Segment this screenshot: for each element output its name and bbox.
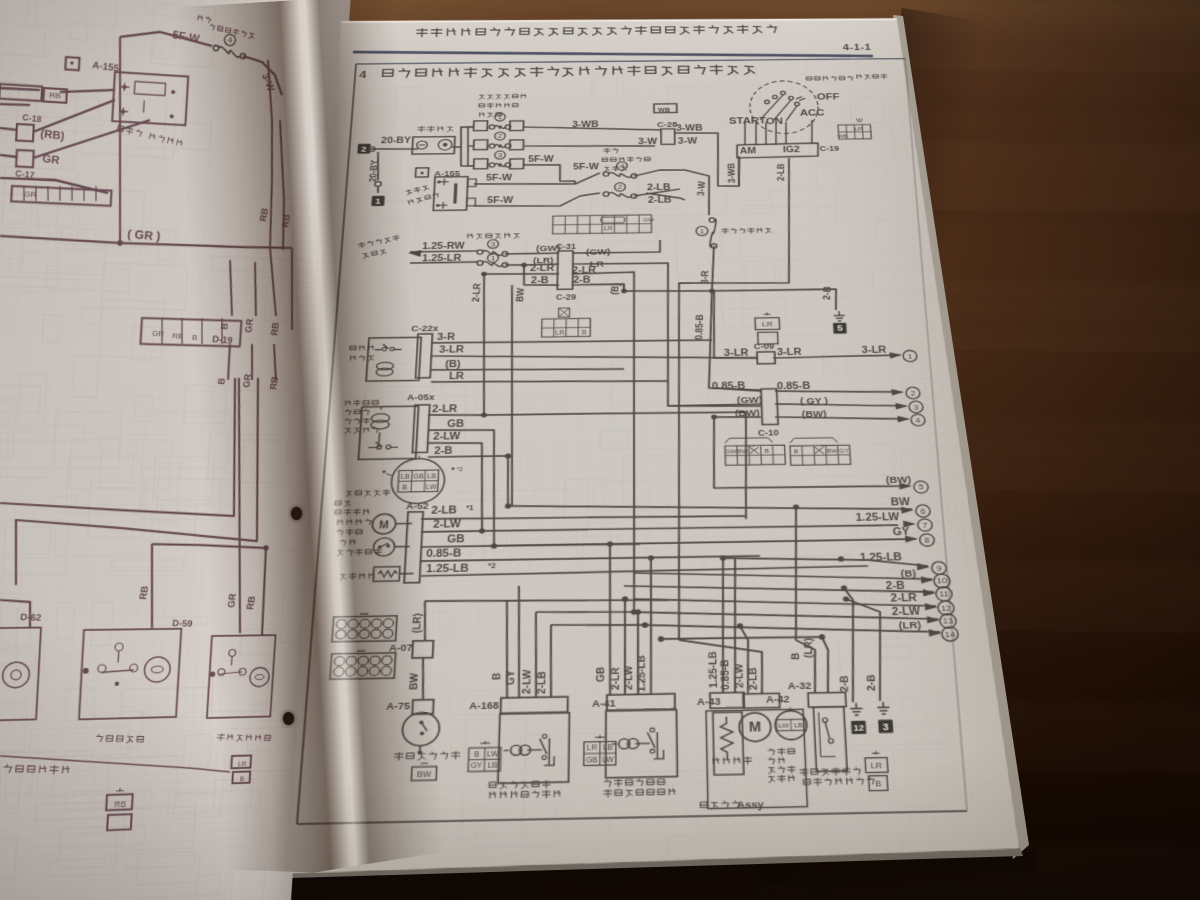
section title manual heater aircon circuit [382,65,754,79]
wire GR down [109,37,132,243]
label C-19 [820,144,840,152]
radiator fan relay label [343,400,380,433]
book gutter shadow band [174,0,446,896]
wire 5FW to subfuse [575,173,600,184]
wire BW down [712,414,910,489]
wire 1.25-LB arrow9 [723,555,928,570]
wire 3-W L [241,56,285,95]
black box 2 [357,144,370,154]
wire LR into A32 [822,637,830,693]
condenser fan assy box [706,709,807,808]
wire 2-B from C29 [572,284,624,292]
label 3-WB vertical [725,163,737,183]
wire LR to C-31 [505,264,559,265]
wire bracket outer [0,373,243,516]
fusible link 3 [489,151,511,168]
relay connector A-52 [404,512,423,583]
wire 2-LB out [634,189,685,201]
wire 0.85-B vertical [707,290,761,390]
fusible link 2 [489,132,511,149]
wire 1.25-LB out [421,566,868,576]
label ACC [800,109,825,119]
pressure switch A-32 [808,692,850,771]
label (LR) 14 [898,619,921,631]
water temp switch S1 [373,537,410,556]
wire 2-B ground3 [846,598,886,701]
noise filter N1 [433,176,476,210]
wire 3-WB row1 [523,125,661,131]
fuse 3 ded [477,239,508,256]
label (BW) c10a [735,407,760,418]
label GY v [503,670,517,685]
wire GB out [421,541,640,550]
wire LR to A-07 [425,597,668,604]
wire 2-LW relay [423,442,485,531]
connector C-10 [756,389,779,438]
wire 2-LB out [421,514,746,521]
label 2-B g12 [836,675,851,692]
motor M1 [372,514,413,535]
label 2-B relay [434,445,454,456]
wire bracket inner [13,373,268,585]
fusible link 4L [213,33,247,58]
wire 3-W row2 [523,144,655,147]
label benza [95,733,143,744]
label 2-LR relay [432,403,458,414]
junction 14 [642,621,743,631]
wire 3-LR left [712,290,757,358]
left page paper sheet [0,0,351,900]
junction dot LR [521,263,527,268]
resistor label [713,757,751,765]
wires below D19 [228,343,278,381]
general fuse label [722,228,771,234]
wire 2-LR arrow12 [634,594,936,611]
label (GW) a [536,243,561,253]
connector C-22x [411,324,439,333]
connector grid C-30 [542,308,591,337]
wire three to D19 [227,246,281,317]
label 0.85-B v3 [718,659,732,690]
wire noise top 5F-W [474,183,575,185]
diagram frame border [297,58,967,824]
connector circle LWLB [775,707,808,740]
relay A-42 bar [743,693,780,708]
label (B) 10 [900,568,916,580]
wire noise bottom 5F-W [474,193,600,207]
wire BW vertical [505,285,518,506]
ignition wires down [744,120,813,145]
label 5F-W d [573,162,599,171]
label B v3 [788,652,802,660]
label 3-LR 1 [724,348,749,358]
battery label [418,126,453,132]
label BW vertical [513,287,526,302]
connector A-42 [766,694,791,705]
label 20-BY vertical [367,159,380,182]
radiator fan assy label [335,490,390,516]
connector A-43 [697,696,722,707]
label 0.85-B b [777,380,812,391]
label (BW) 5 [885,474,911,485]
wire 1.25-LB into A41 [648,555,655,695]
wire 2-B relay [425,456,509,508]
junction 2B [505,453,511,458]
wire BW down A-75 [421,657,425,699]
terminal 2 [891,387,920,399]
junction 2-LR vert [476,272,490,415]
condenser fan motor relay LO label 2 [604,778,675,797]
label 1.25-LB 9 [859,551,902,563]
wire 2-LB into A42 [679,639,763,695]
connector C-28 [657,121,678,145]
connector A-168 [469,700,500,711]
connector D-59 [172,619,194,630]
turn fusible link label [479,94,526,117]
label RB bottom [138,585,151,600]
wire B into A168 [504,600,510,698]
tag A-155 L [65,57,120,74]
wire LR out [431,379,668,385]
wire B into A32 [790,504,817,693]
label 2-LB b [648,195,672,205]
label 0.85-B s [426,547,462,559]
sub fusible link label L [197,15,256,40]
page number 4-1-1 [843,43,872,53]
wire column to rows [466,127,475,166]
pressure switch label [800,767,874,786]
label 3-LR 2 [777,347,803,357]
header title bar [416,25,776,37]
label GR bottom [226,593,258,611]
left page paper [0,0,372,900]
connector A-07 [389,641,434,659]
connector grid D2 [330,650,396,679]
terminal 10 [921,574,951,588]
wire lamp feed [146,544,268,638]
label B v [489,673,503,681]
label 1.25-LB s [426,562,497,574]
wire B arrow10 [634,568,932,584]
label 3-WB [572,120,599,129]
connector C-19 grid [837,119,872,140]
wire 3-LR right [773,355,900,358]
label 1.25-RW [422,241,465,251]
label START [729,116,767,126]
relay A-41 bar [607,694,675,711]
ground 3 [877,702,890,714]
wire RB mid [0,93,115,136]
wire LR right junction [570,262,761,409]
label 2-LW v3 [732,662,746,688]
label 2-LW 13 [891,605,921,617]
label LR right [590,259,604,269]
connector C-09 [754,342,775,364]
wire BW arrow6 [508,500,912,516]
connector small bottom [230,755,251,783]
label (LR) v3 [800,637,815,658]
section number 4 [359,70,368,81]
junction BW6 [505,503,511,508]
black box 1 [371,196,385,206]
wire IG2 down 2-LB [672,158,811,640]
navy header rule [352,46,873,61]
labels below D19 [216,372,281,390]
connector D-62 [20,612,43,623]
label 1.25-LB v3 [706,651,720,688]
connector table B LW GY LB [468,741,501,772]
label 2-LW relay [433,431,461,442]
ground 12 [850,703,863,715]
resistor A-43 [713,712,744,775]
wire GW right [572,240,660,253]
wire GB into A41 [606,541,613,695]
sub fusible link label [602,148,650,172]
connector C-17 [15,150,36,180]
fusible link pads row3 [474,158,524,169]
label GY 8 [892,526,909,537]
wire 1.25-LR [410,262,478,263]
label (B) vertical [607,282,621,295]
label 5F-W L [171,28,201,45]
label 5F-W c [487,195,514,205]
wire 2-B ground12 [844,588,859,702]
terminal 6 [901,505,931,518]
wire 3-R down [711,246,715,291]
connector grid D1 [332,613,397,641]
label GB s [447,534,466,545]
connector WB tag [654,104,677,114]
relay A-168 bar [501,697,568,714]
wire GW to C-31 [505,252,559,255]
terminal 12 [924,601,954,616]
wire 1.25-LB into A43 [720,558,727,693]
label OFF [817,93,840,103]
wire 2-LB into A168 [550,625,553,698]
wire A-07 up [423,601,427,640]
label 3-W c [678,137,698,146]
writing lamp label [3,763,69,776]
junction BW [711,415,717,420]
label GR L [42,152,61,167]
fusible link pads row1 [474,120,524,131]
heater relay HR1 [366,337,421,381]
label 2-LB v3 [746,667,760,690]
terminal 8 [905,534,935,547]
wire 3-WB to C-28 path [674,132,740,187]
fusible link 1 [489,113,511,130]
junction GR [117,240,123,246]
label 1.25-LW 7 [855,511,900,523]
label 2-LB a [647,182,671,192]
label 3-R vertical [698,270,711,284]
label 2-B vertical r [820,286,834,300]
room lamp RL [207,635,276,718]
connector LR B tags [865,751,890,791]
noise filter label L [116,125,183,147]
cast shadow on wood right of book [759,8,985,894]
label 1.25-LB v2 [634,655,648,692]
label (GW) c10 [737,394,763,405]
label 2-B r [573,275,591,285]
ignition contacts [759,91,807,121]
label GB v2 [593,667,606,683]
heater relay connector [416,334,433,378]
wire LR arrow14 [645,620,940,637]
wire 2-LW into A41 [635,609,642,695]
terminal 3 [895,401,923,413]
ground terminal 1 [374,181,381,193]
relay A-168 body [498,713,570,784]
connector RB bottom [105,788,133,831]
wire B down [623,284,625,291]
fuse 1 ded [477,253,508,267]
radiator fan relay RH1 [358,406,418,459]
water temp switch A-75 [401,712,440,755]
label (B) out [445,359,461,369]
wire 2-LW out [421,522,898,535]
lamp D-62 [0,627,41,720]
terminal 4 [897,414,925,426]
underline lamp [0,749,231,779]
label 3-W L [258,71,277,94]
cast shadow on wood below book [275,851,1036,900]
connector A-52 [406,501,430,511]
wire d62 link [0,600,31,629]
wire 2-LR relay [422,409,749,525]
fusible link pads row2 [474,139,524,150]
junction 11 [841,585,849,602]
wire 5F-W row3 [523,164,576,181]
label 2-B 11 [885,580,905,592]
label 2-LR 12 [890,592,918,604]
general fuse 1 [696,218,717,249]
connector grid GWBW [725,437,786,465]
tail lamp relay label [357,235,400,259]
label 3-W b [638,137,658,146]
label 2-LR r [572,265,597,275]
connector A-41 [592,698,616,709]
label 2-LW v2 [621,664,634,690]
label 2-LB vertical [774,163,787,181]
condenser fan motor label [768,748,796,782]
wire joins [518,584,645,627]
wire BW right arrow4 [775,415,908,421]
connector C-18 [16,112,42,142]
connector GR strip [11,182,112,206]
label 1.25-LR [422,253,462,263]
label (LR) A07 [409,613,423,633]
junction dots B row [621,287,715,294]
relay A-43 bar [710,692,744,708]
left page show-through print [0,0,409,900]
label 5F-W a [528,154,554,163]
wire GY arrow8 [494,539,916,546]
wire 0.85-B out [421,555,760,561]
wire 20-BY down [376,152,380,180]
label 3-W vertical [694,180,708,196]
wire battery to fuse column [451,127,476,166]
wire GY right arrow3 [775,402,906,408]
wire 3-W from subfuse4 [634,169,710,216]
label 3-R out [437,332,456,342]
battery B1 [412,137,455,155]
wire 5FW top [120,29,213,46]
dedicated fuse box [553,215,656,234]
label 2-LR v2 [608,667,621,690]
label ON [766,117,784,127]
water temp switch label [395,751,460,760]
labels RB B vert [258,207,293,228]
terminal 1 [889,350,917,362]
black box 3 [878,720,893,733]
label 0.85-B vertical [692,314,706,340]
sub fusible link 4 [603,162,637,179]
wire long GR [0,236,292,250]
wire 2-LR into A41 [622,596,628,695]
terminal 13 [926,614,956,629]
label 3-LR out [439,345,465,355]
wire 0.85-B right arrow2 [775,389,902,394]
label (GR) L [127,227,161,244]
label IG2 [783,145,800,154]
wire 2-LW into A42 [740,626,750,693]
wire GW left [668,404,761,406]
relay connector A-05x [412,405,429,453]
wire GR mid [0,112,150,164]
black box 12 [851,721,866,735]
noise filter label [405,185,440,206]
wire 1.25-RW [410,251,478,252]
label 2-LR vertical [469,283,483,302]
wire 2-B arrow11 [624,581,934,597]
resistor R1 [373,566,414,581]
labels B GR RB [219,317,282,337]
staple hole top [291,507,302,520]
label 2-LW v [519,668,533,694]
connector row RB [0,84,67,103]
wire 0.85-B into A43 [731,558,739,693]
label LR out [449,371,465,381]
label 2-LR [530,263,555,273]
wire GR vertical lamp [223,378,256,633]
ignition switch body [749,81,820,134]
label 5F-W b [486,173,513,183]
label C-31 [556,242,577,251]
wire 3-LR out [431,351,757,362]
staple hole bottom [283,712,294,725]
junction 13 [631,609,637,615]
label 2-LW s [433,519,462,531]
label (RB) L [40,127,66,143]
lamp switch D-59 [79,629,181,720]
label 3-LR 3 [861,345,887,355]
label AM [740,147,757,156]
connector grid BBWGY [790,437,851,465]
ignition base box [737,143,819,158]
wire GB relay [422,429,498,545]
terminal 14 [928,627,958,642]
label GB relay [447,418,465,429]
connector LR small [755,312,780,344]
connector D-19 [140,316,241,347]
label 2-B [531,275,549,285]
wire 2-LW into A168 [534,612,538,698]
wire AM down [738,158,740,186]
wire gr strip [0,177,109,193]
right page show-through print [277,54,1111,900]
wire 0.85-B left [709,387,761,392]
